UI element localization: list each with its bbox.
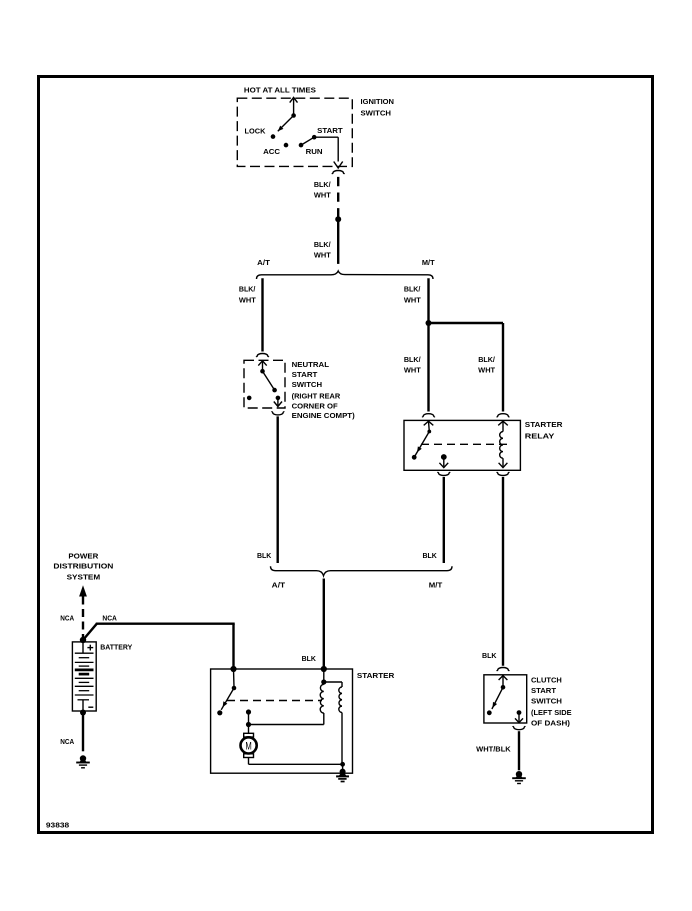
svg-text:(RIGHT REAR: (RIGHT REAR	[292, 392, 342, 401]
svg-text:BLK/: BLK/	[314, 240, 331, 249]
svg-text:(LEFT SIDE: (LEFT SIDE	[531, 708, 572, 717]
svg-text:SWITCH: SWITCH	[292, 380, 323, 389]
svg-text:WHT/BLK: WHT/BLK	[476, 744, 511, 753]
svg-text:WHT: WHT	[404, 296, 422, 305]
svg-text:ACC: ACC	[263, 147, 280, 156]
svg-text:STARTER: STARTER	[525, 420, 564, 429]
svg-text:A/T: A/T	[272, 581, 286, 590]
svg-text:BATTERY: BATTERY	[100, 642, 132, 651]
svg-text:BLK/: BLK/	[239, 285, 256, 294]
svg-text:A/T: A/T	[257, 258, 270, 267]
svg-text:HOT AT ALL TIMES: HOT AT ALL TIMES	[244, 85, 316, 94]
svg-text:BLK/: BLK/	[404, 355, 421, 364]
svg-text:M: M	[245, 740, 251, 752]
svg-text:LOCK: LOCK	[245, 127, 267, 136]
svg-text:NEUTRAL: NEUTRAL	[292, 360, 330, 369]
svg-text:NCA: NCA	[60, 614, 74, 623]
svg-text:BLK/: BLK/	[314, 180, 331, 189]
svg-text:BLK: BLK	[302, 654, 317, 663]
svg-text:START: START	[531, 686, 557, 695]
svg-text:RUN: RUN	[306, 147, 323, 156]
svg-text:NCA: NCA	[102, 614, 117, 623]
svg-text:SYSTEM: SYSTEM	[67, 572, 101, 581]
svg-text:CLUTCH: CLUTCH	[531, 676, 562, 685]
svg-text:WHT: WHT	[239, 296, 257, 305]
svg-text:OF DASH): OF DASH)	[531, 718, 571, 727]
svg-text:BLK/: BLK/	[404, 285, 421, 294]
svg-text:M/T: M/T	[422, 258, 435, 267]
svg-text:DISTRIBUTION: DISTRIBUTION	[53, 562, 113, 571]
svg-text:STARTER: STARTER	[357, 671, 395, 680]
svg-text:START: START	[317, 126, 343, 135]
svg-text:BLK: BLK	[482, 651, 497, 660]
svg-text:WHT: WHT	[314, 191, 332, 200]
svg-text:SWITCH: SWITCH	[361, 108, 392, 117]
svg-text:POWER: POWER	[68, 551, 99, 560]
svg-text:ENGINE COMPT): ENGINE COMPT)	[292, 411, 356, 420]
svg-text:WHT: WHT	[404, 366, 422, 375]
svg-text:NCA: NCA	[60, 737, 74, 746]
svg-text:WHT: WHT	[314, 251, 332, 260]
svg-text:93838: 93838	[46, 821, 69, 830]
svg-text:START: START	[292, 370, 318, 379]
svg-text:IGNITION: IGNITION	[361, 97, 395, 106]
svg-text:BLK: BLK	[423, 551, 438, 560]
svg-text:SWITCH: SWITCH	[531, 697, 562, 706]
svg-text:RELAY: RELAY	[525, 432, 555, 441]
svg-text:WHT: WHT	[478, 366, 496, 375]
svg-text:M/T: M/T	[429, 581, 443, 590]
svg-text:CORNER OF: CORNER OF	[292, 401, 339, 410]
svg-text:BLK: BLK	[257, 551, 272, 560]
svg-text:BLK/: BLK/	[478, 355, 495, 364]
